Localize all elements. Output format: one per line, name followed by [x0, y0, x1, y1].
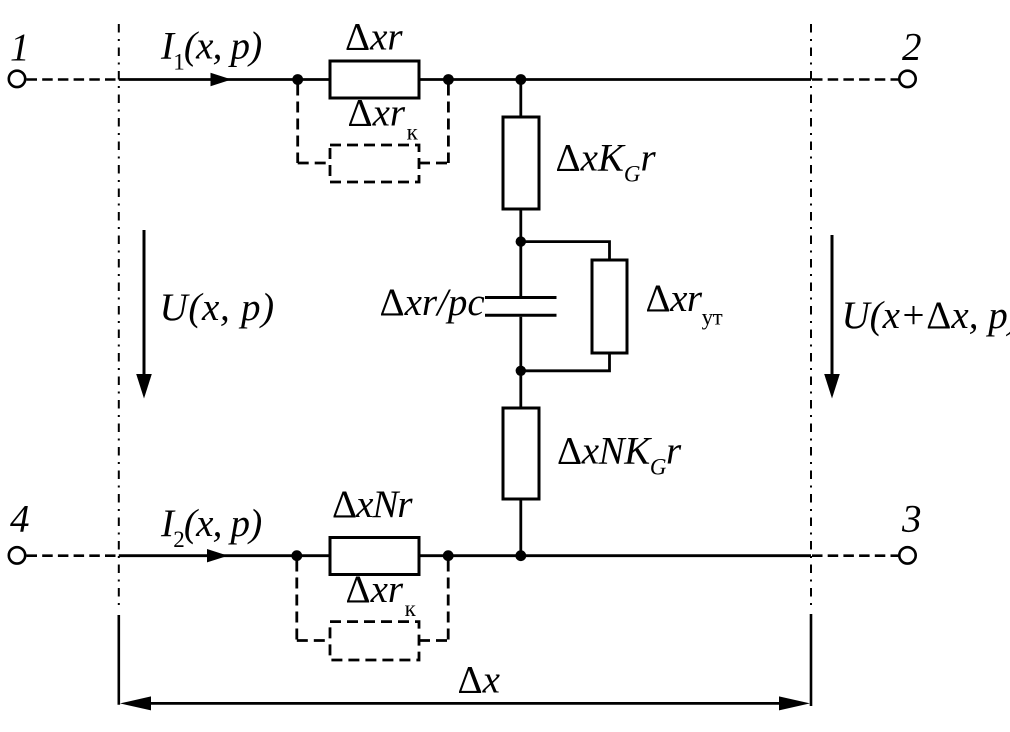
svg-text:U(x+Δx, p): U(x+Δx, p)	[842, 294, 1010, 337]
svg-text:1: 1	[10, 26, 30, 69]
svg-text:Δxr: Δxr	[345, 16, 403, 59]
svg-text:3: 3	[901, 498, 922, 541]
svg-text:4: 4	[10, 498, 30, 541]
svg-text:Δxr/pc: Δxr/pc	[380, 281, 485, 324]
svg-text:ΔxKGr: ΔxKGr	[556, 137, 657, 187]
svg-text:Δx: Δx	[458, 659, 501, 702]
svg-text:ΔxNr: ΔxNr	[332, 483, 413, 526]
svg-text:2: 2	[902, 26, 922, 69]
svg-text:U(x, p): U(x, p)	[160, 286, 275, 329]
